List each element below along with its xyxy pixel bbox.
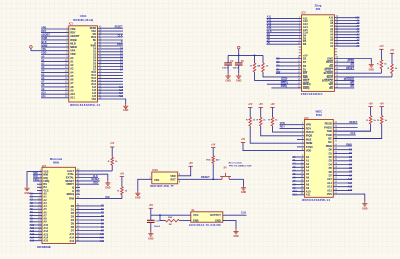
svg-text:VSS: VSS bbox=[327, 192, 332, 196]
ground GND under IC10 bbox=[135, 191, 141, 200]
capacitor C4 100nF bbox=[222, 55, 234, 73]
svg-text:100nF: 100nF bbox=[233, 68, 240, 70]
ground GND under C5 bbox=[236, 74, 242, 83]
svg-text:D4: D4 bbox=[71, 218, 75, 222]
svg-text:GND: GND bbox=[233, 235, 239, 238]
svg-text:VCC: VCC bbox=[193, 213, 199, 217]
svg-text:R/W: R/W bbox=[69, 197, 75, 201]
svg-text:+5V: +5V bbox=[380, 102, 385, 105]
svg-text:A3: A3 bbox=[306, 165, 310, 169]
svg-text:VDD: VDD bbox=[41, 52, 46, 55]
svg-text:Z84C0010FEC: Z84C0010FEC bbox=[301, 92, 324, 96]
svg-text:A13: A13 bbox=[348, 186, 353, 189]
svg-text:IC7: IC7 bbox=[42, 164, 47, 168]
svg-text:NC: NC bbox=[328, 140, 332, 144]
svg-text:+5V: +5V bbox=[189, 162, 194, 165]
svg-text:A14: A14 bbox=[69, 236, 74, 240]
svg-text:A4: A4 bbox=[70, 70, 74, 74]
svg-text:VDA: VDA bbox=[91, 30, 96, 33]
svg-text:RDY: RDY bbox=[280, 126, 285, 129]
svg-text:BA2: BA2 bbox=[91, 77, 96, 80]
svg-text:+5V: +5V bbox=[390, 49, 395, 52]
svg-text:A14: A14 bbox=[348, 182, 353, 185]
svg-text:PHI2: PHI2 bbox=[91, 37, 97, 39]
resistor R3 pull-up left of IC3 bbox=[268, 103, 278, 126]
svg-text:RESB: RESB bbox=[325, 122, 332, 126]
svg-text:EXTAL: EXTAL bbox=[66, 175, 75, 179]
svg-text:NMIB: NMIB bbox=[306, 141, 313, 145]
svg-text:GND: GND bbox=[135, 197, 141, 200]
svg-text:RDY: RDY bbox=[306, 126, 312, 130]
svg-text:D0: D0 bbox=[303, 64, 307, 68]
svg-text:INT: INT bbox=[276, 72, 280, 75]
svg-text:IORQ: IORQ bbox=[281, 85, 287, 88]
svg-text:D7: D7 bbox=[71, 228, 75, 232]
IC1 right pins RESB-VSS with wires and net labels bbox=[90, 26, 126, 105]
wire +5V to X1 VCC pin bbox=[149, 204, 191, 216]
svg-text:D1: D1 bbox=[303, 67, 307, 71]
svg-text:ENB: ENB bbox=[193, 219, 199, 223]
resistor R2 pull-up left of IC3 bbox=[257, 103, 267, 126]
svg-text:OUTPUT: OUTPUT bbox=[210, 213, 221, 217]
ground GND at IC2 pin 29 bbox=[369, 63, 375, 72]
svg-text:A8: A8 bbox=[306, 182, 310, 186]
svg-text:FIRQ: FIRQ bbox=[33, 178, 39, 181]
svg-text:6809: 6809 bbox=[53, 160, 59, 164]
ic IC10 MCP100 reset supervisor body bbox=[150, 168, 177, 188]
svg-text:BREQ: BREQ bbox=[67, 192, 75, 196]
svg-text:+5V: +5V bbox=[110, 142, 115, 145]
svg-text:A1: A1 bbox=[70, 60, 74, 64]
svg-text:RWB: RWB bbox=[91, 46, 97, 48]
svg-text:BA1: BA1 bbox=[91, 74, 96, 77]
svg-text:S0B: S0B bbox=[327, 129, 332, 133]
svg-text:VPA: VPA bbox=[70, 49, 75, 53]
svg-text:A10: A10 bbox=[70, 92, 75, 96]
svg-text:VPA: VPA bbox=[41, 48, 46, 51]
svg-text:A11: A11 bbox=[70, 96, 75, 100]
svg-text:A9: A9 bbox=[70, 88, 74, 92]
svg-text:BUSACK: BUSACK bbox=[344, 78, 355, 81]
svg-text:RDY: RDY bbox=[70, 31, 76, 35]
svg-text:VPB: VPB bbox=[41, 26, 46, 29]
svg-text:A15: A15 bbox=[327, 177, 332, 181]
ground GND under X1 bbox=[233, 229, 239, 238]
svg-text:IRQB: IRQB bbox=[306, 134, 313, 138]
svg-text:IC2: IC2 bbox=[302, 11, 307, 15]
ic IC2 Zilog Z80 body bbox=[301, 3, 335, 96]
svg-text:MLB: MLB bbox=[70, 41, 76, 45]
svg-text:A6: A6 bbox=[70, 78, 74, 82]
svg-text:D1: D1 bbox=[329, 151, 333, 155]
svg-text:MLB: MLB bbox=[41, 41, 46, 44]
IC7 left pins VSS-A15 with wires and net labels bbox=[27, 170, 49, 243]
svg-text:RWB: RWB bbox=[346, 143, 352, 146]
svg-text:HALT: HALT bbox=[281, 78, 288, 81]
svg-text:D5: D5 bbox=[71, 221, 75, 225]
svg-text:RFSH: RFSH bbox=[347, 60, 354, 63]
wire X1 OUTPUT to CLK net label bbox=[223, 210, 247, 215]
svg-text:A10: A10 bbox=[306, 189, 311, 193]
svg-text:A13: A13 bbox=[69, 239, 74, 243]
svg-text:100nF: 100nF bbox=[222, 68, 229, 70]
resistor R4 pull-up on IC3 S0B bbox=[333, 102, 376, 131]
svg-text:A12: A12 bbox=[92, 86, 97, 89]
svg-text:+5V: +5V bbox=[248, 103, 253, 106]
svg-text:IRQB: IRQB bbox=[70, 38, 77, 42]
svg-text:+5V: +5V bbox=[120, 172, 125, 175]
svg-text:GND: GND bbox=[327, 56, 333, 60]
svg-text:MC6809E: MC6809E bbox=[37, 245, 51, 249]
svg-text:A15: A15 bbox=[119, 95, 124, 98]
svg-text:A15: A15 bbox=[348, 178, 353, 181]
wire S4 to ground bbox=[243, 179, 245, 186]
svg-text:GND: GND bbox=[215, 219, 221, 223]
svg-text:A0: A0 bbox=[306, 155, 310, 159]
resistor R10 pull-up on IC7 HALT bbox=[108, 142, 118, 171]
ground GND under C4 bbox=[225, 74, 231, 83]
resistor R5 pull-up on IC3 BE bbox=[333, 102, 387, 138]
resistor R9 pull-up on WAIT bbox=[388, 49, 398, 77]
ground GND at IC7 XTAL bbox=[105, 181, 111, 190]
ic IC3 W65C02S body bbox=[302, 109, 333, 202]
svg-text:A10: A10 bbox=[329, 17, 334, 20]
svg-text:Motorola: Motorola bbox=[50, 157, 63, 161]
svg-text:WR: WR bbox=[350, 82, 354, 85]
ground GND under C10 bbox=[148, 232, 154, 241]
svg-text:PHI2: PHI2 bbox=[326, 133, 332, 137]
svg-text:RESET: RESET bbox=[349, 121, 358, 124]
ground GND under S4 bbox=[241, 186, 247, 194]
resistor R1 pull-up left of IC3 bbox=[246, 103, 256, 126]
svg-text:D0: D0 bbox=[329, 148, 333, 152]
svg-text:VSS: VSS bbox=[154, 178, 159, 182]
svg-text:VPB: VPB bbox=[280, 122, 285, 125]
svg-text:Q: Q bbox=[72, 185, 74, 189]
IC3 left pins VPB-A11 with wires and net labels bbox=[243, 122, 314, 197]
svg-text:D0: D0 bbox=[71, 204, 75, 208]
svg-text:A14: A14 bbox=[327, 181, 332, 185]
svg-text:CLK: CLK bbox=[118, 34, 123, 37]
svg-text:GND: GND bbox=[24, 192, 30, 195]
capacitor C10 100nF bbox=[147, 215, 161, 231]
wire IC10 VDD pin to +5V bar bbox=[178, 162, 194, 176]
ground GND under IC1 VSS bbox=[123, 104, 129, 112]
svg-text:Z80: Z80 bbox=[316, 7, 321, 11]
svg-text:NMIB: NMIB bbox=[41, 44, 47, 47]
svg-text:A14: A14 bbox=[92, 92, 97, 95]
svg-text:MREQ: MREQ bbox=[281, 82, 288, 85]
svg-text:D3: D3 bbox=[71, 214, 75, 218]
ic IC1 W65C816S body bbox=[69, 14, 101, 107]
svg-text:U101: U101 bbox=[80, 14, 87, 18]
svg-text:ABORT: ABORT bbox=[41, 34, 50, 37]
switch S4 reset pushbutton bbox=[219, 161, 252, 179]
svg-text:D6: D6 bbox=[329, 170, 333, 174]
svg-text:A0: A0 bbox=[70, 56, 74, 60]
capacitor C5 100nF bbox=[233, 55, 245, 73]
wire RESET net with label and junction bbox=[178, 175, 219, 184]
resistor R16 4k7 reset pull-up bbox=[206, 143, 220, 179]
svg-text:A7: A7 bbox=[70, 81, 74, 85]
svg-text:D6: D6 bbox=[71, 225, 75, 229]
ground GND under IC3 VSS bbox=[362, 202, 368, 211]
svg-text:SYNC: SYNC bbox=[306, 145, 313, 149]
svg-text:W65C02S6PW-14: W65C02S6PW-14 bbox=[302, 198, 330, 202]
svg-text:D6: D6 bbox=[303, 42, 307, 46]
svg-text:D7: D7 bbox=[329, 174, 333, 178]
svg-text:VDD: VDD bbox=[70, 52, 76, 56]
svg-text:CLK: CLK bbox=[350, 132, 355, 135]
ic IC7 MC6809E body bbox=[37, 157, 75, 249]
svg-text:A9: A9 bbox=[306, 186, 310, 190]
svg-text:A4: A4 bbox=[306, 169, 310, 173]
svg-text:A13: A13 bbox=[92, 89, 97, 92]
resistor R6 pull-up on Z80 HALT bbox=[250, 55, 260, 80]
svg-text:+5V: +5V bbox=[379, 45, 384, 48]
wire X1 GND pin bbox=[223, 221, 236, 230]
svg-text:D3: D3 bbox=[329, 159, 333, 163]
svg-text:GND: GND bbox=[236, 79, 242, 82]
svg-text:+5V: +5V bbox=[241, 138, 246, 141]
svg-text:Reset switch: Reset switch bbox=[229, 161, 243, 164]
power port +5V (circle) on rail bbox=[237, 46, 240, 55]
resistor R11 pull-up on IC7 R/W bbox=[118, 172, 128, 198]
svg-text:BE: BE bbox=[93, 40, 97, 42]
svg-text:A15: A15 bbox=[43, 240, 48, 243]
svg-text:MLB: MLB bbox=[306, 137, 312, 141]
svg-text:A15: A15 bbox=[69, 232, 74, 236]
svg-text:A5: A5 bbox=[306, 172, 310, 176]
svg-text:MX: MX bbox=[93, 34, 97, 36]
svg-text:GND: GND bbox=[225, 79, 231, 82]
svg-text:A12: A12 bbox=[327, 188, 332, 192]
svg-text:ECS100AX-7C-040.0M: ECS100AX-7C-040.0M bbox=[189, 223, 220, 227]
svg-text:A13: A13 bbox=[100, 240, 105, 243]
resistor R8 pull-up on BUSRQ bbox=[377, 45, 387, 73]
svg-text:A13: A13 bbox=[327, 185, 332, 189]
svg-text:A3: A3 bbox=[70, 67, 74, 71]
wire IC10 VSS pin to ground bbox=[138, 178, 152, 191]
IC2 left pins A11-IORQ with wires and net labels bbox=[255, 16, 311, 90]
oscillator X1 ECS-100AX body bbox=[189, 208, 223, 227]
svg-text:RD: RD bbox=[351, 85, 355, 88]
svg-text:VPB: VPB bbox=[306, 123, 311, 127]
svg-text:65C816S (16-bit): 65C816S (16-bit) bbox=[73, 18, 93, 22]
svg-text:W65C816S6PB-14: W65C816S6PB-14 bbox=[70, 103, 100, 107]
svg-text:A8: A8 bbox=[70, 85, 74, 89]
svg-text:VDD: VDD bbox=[306, 149, 312, 153]
svg-text:RESET: RESET bbox=[201, 175, 210, 179]
svg-text:IC10: IC10 bbox=[152, 168, 158, 172]
svg-text:+5V: +5V bbox=[368, 102, 373, 105]
svg-text:RST: RST bbox=[171, 178, 177, 182]
svg-text:+5V: +5V bbox=[270, 103, 275, 106]
svg-text:A7: A7 bbox=[306, 179, 310, 183]
svg-text:GND: GND bbox=[369, 68, 375, 71]
svg-text:+5V: +5V bbox=[259, 103, 264, 106]
IC1 left pins VPB-A11 with wires and net labels bbox=[41, 26, 80, 99]
power port +5V (circle) at IC1 VDD bbox=[30, 46, 41, 51]
svg-text:IC1: IC1 bbox=[69, 21, 74, 25]
svg-text:100nF: 100nF bbox=[154, 226, 161, 228]
svg-text:D1: D1 bbox=[71, 207, 75, 211]
svg-text:A2: A2 bbox=[306, 162, 310, 166]
svg-text:NMIB: NMIB bbox=[70, 45, 77, 49]
svg-text:1M: 1M bbox=[168, 224, 171, 226]
IC7 right pins HALT-A13 with wires and net labels bbox=[65, 169, 121, 243]
svg-text:A5: A5 bbox=[70, 74, 74, 78]
svg-text:A12: A12 bbox=[348, 189, 353, 192]
svg-text:RESET: RESET bbox=[115, 26, 124, 29]
svg-text:Zilog: Zilog bbox=[314, 3, 321, 7]
svg-text:+5V: +5V bbox=[211, 143, 216, 146]
svg-text:A11: A11 bbox=[292, 194, 297, 197]
svg-text:A1: A1 bbox=[306, 158, 310, 162]
svg-text:PHI1O: PHI1O bbox=[306, 130, 314, 134]
svg-text:D5: D5 bbox=[329, 166, 333, 170]
svg-text:GND: GND bbox=[241, 191, 247, 194]
svg-text:GND: GND bbox=[105, 187, 111, 190]
svg-text:+5V: +5V bbox=[149, 204, 154, 207]
svg-text:BE: BE bbox=[328, 137, 332, 141]
svg-text:D4: D4 bbox=[329, 162, 333, 166]
svg-text:D7: D7 bbox=[303, 60, 307, 64]
svg-text:RDY: RDY bbox=[94, 182, 99, 185]
svg-text:X1: X1 bbox=[191, 208, 195, 212]
resistor R30 1M on X1 ENB bbox=[160, 215, 191, 226]
svg-text:MCP100T-450I_TT: MCP100T-450I_TT bbox=[150, 184, 174, 188]
svg-text:RDY: RDY bbox=[41, 30, 46, 33]
svg-text:D2: D2 bbox=[303, 56, 307, 60]
svg-text:RWB: RWB bbox=[117, 43, 123, 46]
svg-text:D2: D2 bbox=[329, 155, 333, 159]
svg-text:6502: 6502 bbox=[316, 113, 322, 117]
svg-text:IC3: IC3 bbox=[304, 116, 309, 120]
svg-text:GND: GND bbox=[362, 208, 368, 211]
IC2 right pins A10-RD with wires and net labels bbox=[322, 16, 392, 90]
svg-text:A11: A11 bbox=[306, 193, 311, 197]
svg-text:VSS: VSS bbox=[91, 99, 96, 101]
svg-text:A6: A6 bbox=[306, 176, 310, 180]
svg-text:VDD: VDD bbox=[170, 174, 176, 178]
svg-text:P/N: TS-1199B-C-H-W: P/N: TS-1199B-C-H-W bbox=[229, 165, 252, 167]
svg-text:GND: GND bbox=[123, 109, 129, 112]
svg-text:BA4: BA4 bbox=[91, 83, 96, 86]
svg-text:A10: A10 bbox=[41, 92, 46, 95]
svg-text:BA3: BA3 bbox=[91, 80, 96, 83]
svg-text:RESET: RESET bbox=[346, 67, 355, 70]
svg-text:VPB: VPB bbox=[70, 27, 75, 31]
svg-text:A15: A15 bbox=[30, 240, 35, 243]
svg-text:RESB: RESB bbox=[90, 28, 97, 30]
svg-text:A11: A11 bbox=[41, 95, 46, 98]
svg-text:PHI2O: PHI2O bbox=[324, 125, 332, 129]
ground GND at IC7 VSS bbox=[24, 186, 30, 195]
svg-text:RWB: RWB bbox=[326, 144, 332, 148]
svg-text:A15: A15 bbox=[92, 95, 97, 98]
svg-text:D2: D2 bbox=[71, 211, 75, 215]
power symbol +5V bar at IC3 VDD bbox=[241, 138, 246, 142]
IC3 right pins RESB-VSS with wires and net labels bbox=[324, 121, 382, 201]
svg-text:ABORT: ABORT bbox=[70, 34, 80, 38]
svg-text:IRQB: IRQB bbox=[41, 37, 47, 40]
resistor R7 pull-up on Z80 NMI bbox=[259, 55, 269, 72]
svg-text:WDC: WDC bbox=[315, 109, 323, 113]
svg-text:A2: A2 bbox=[70, 63, 74, 67]
svg-text:GND: GND bbox=[148, 238, 154, 241]
svg-text:CLK: CLK bbox=[241, 210, 246, 214]
svg-text:BA0: BA0 bbox=[91, 71, 96, 74]
wire +5V rail node bbox=[228, 55, 263, 57]
